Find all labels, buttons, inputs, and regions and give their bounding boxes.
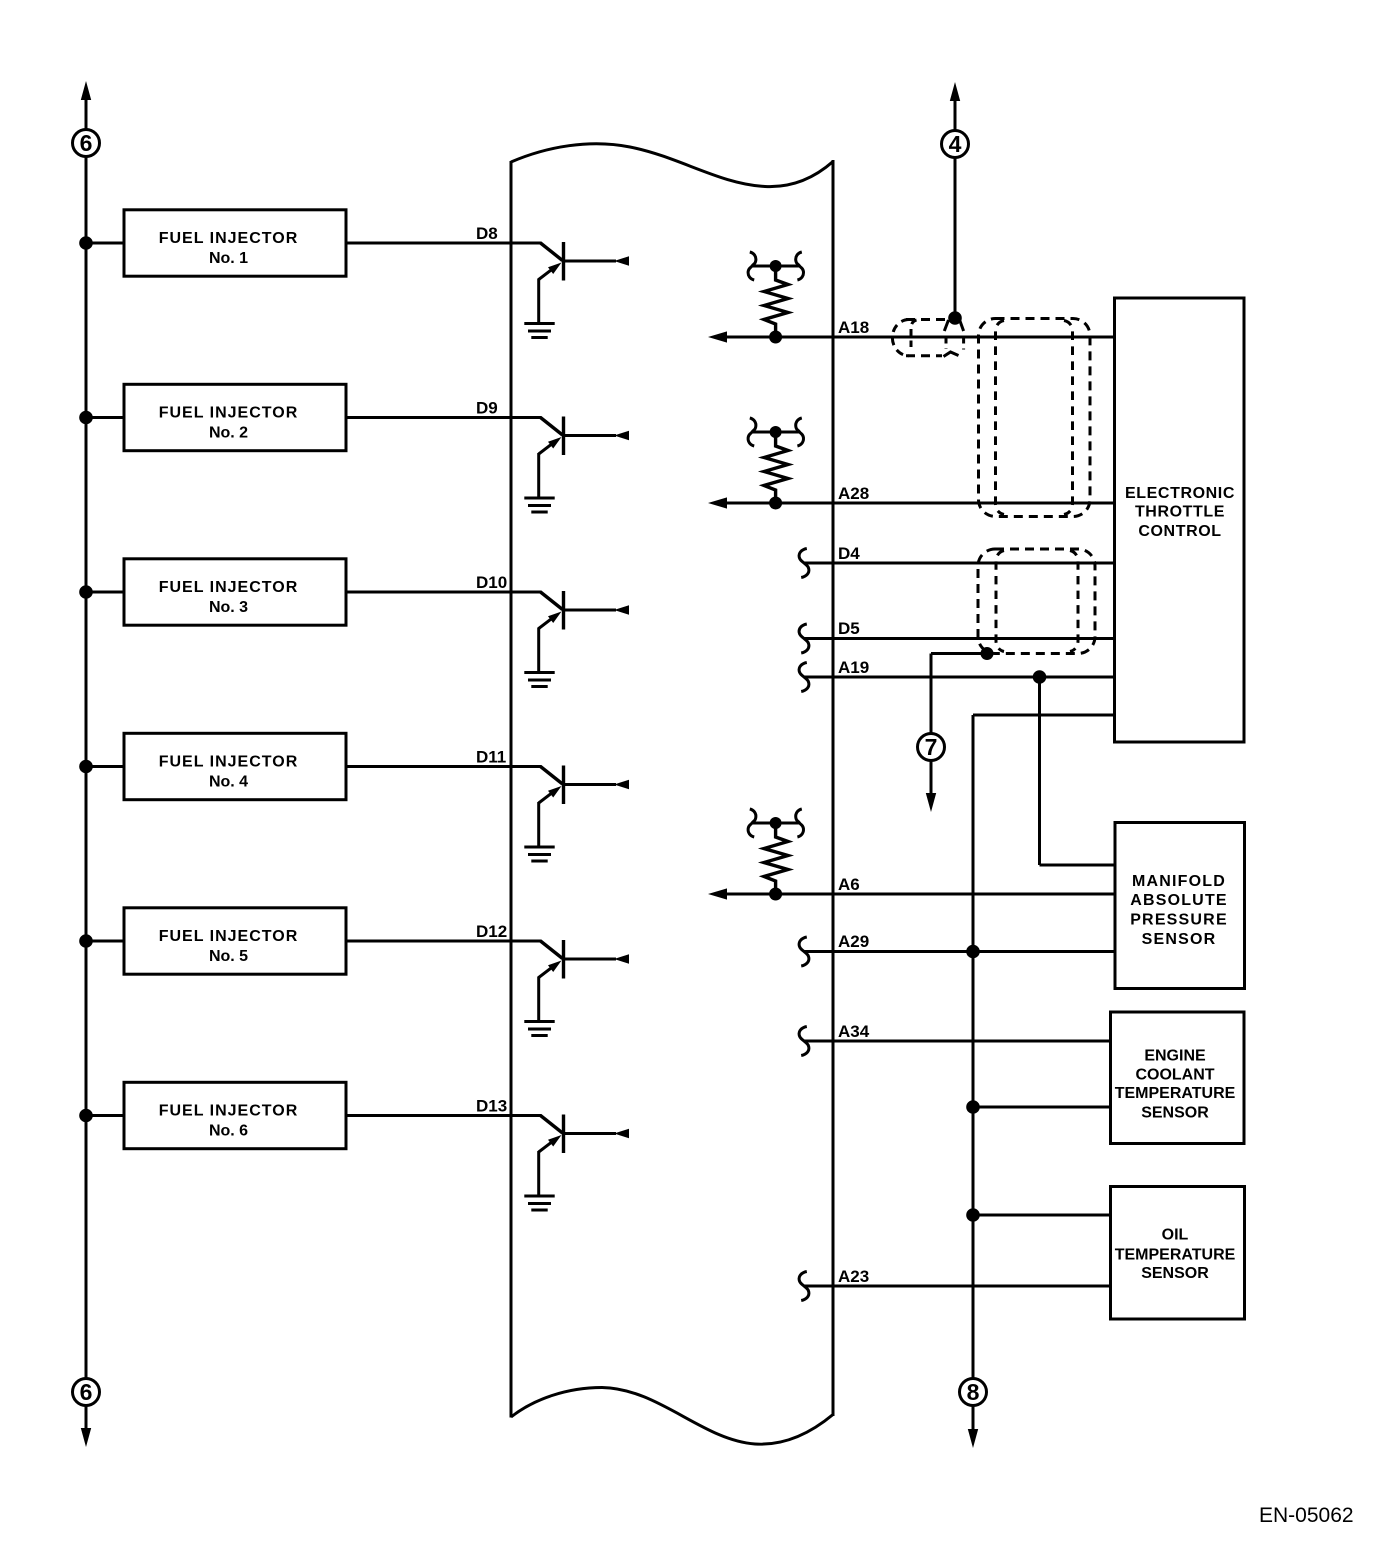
node bus junction 1 xyxy=(79,236,93,250)
wire circle 7 to arrow xyxy=(930,761,933,795)
transistor Q1 base bar xyxy=(562,242,565,281)
svg-text:D13: D13 xyxy=(476,1097,507,1116)
shield twisted pair D4/D5 xyxy=(978,549,1095,654)
wire bus to fuel injector 3 xyxy=(86,591,124,594)
wire to engine coolant temperature sensor xyxy=(973,1106,1111,1109)
svg-text:SENSOR: SENSOR xyxy=(1142,931,1217,948)
node resistor top junction xyxy=(770,260,782,272)
wire resistor top lead xyxy=(752,431,800,434)
svg-text:A23: A23 xyxy=(838,1267,869,1286)
wire break squiggle left xyxy=(748,252,756,280)
node OIL return junction xyxy=(966,1208,980,1222)
wire A19 junction down to MAP xyxy=(1038,677,1041,865)
wire left bus vertical xyxy=(85,99,88,130)
svg-text:PRESSURE: PRESSURE xyxy=(1130,912,1228,929)
svg-text:8: 8 xyxy=(967,1379,980,1405)
transistor Q3 output line xyxy=(564,609,617,612)
arrowhead pointing left Q2 xyxy=(614,431,629,441)
wire A23 xyxy=(804,1285,1111,1288)
box manifold absolute pressure sensor xyxy=(1115,823,1245,989)
box electronic throttle control xyxy=(1115,298,1245,742)
svg-text:TEMPERATURE: TEMPERATURE xyxy=(1115,1085,1236,1102)
svg-text:A19: A19 xyxy=(838,658,869,677)
wire A28 xyxy=(722,502,1114,505)
transistor Q5 base bar xyxy=(562,940,565,979)
wire bus to fuel injector 2 xyxy=(86,416,124,419)
arrowhead down left bus xyxy=(81,1428,91,1447)
wire injector 1 to D pin xyxy=(346,242,432,245)
svg-text:No. 3: No. 3 xyxy=(209,599,248,616)
fuel injector box No.3 xyxy=(124,559,346,625)
svg-text:A29: A29 xyxy=(838,932,869,951)
fuel injector box No.5 xyxy=(124,908,346,974)
node A29 junction xyxy=(966,945,980,959)
node resistor top junction xyxy=(770,426,782,438)
wire bus to fuel injector 6 xyxy=(86,1114,124,1117)
node shield drain junction A18 xyxy=(948,311,962,325)
fuel injector box No.6 xyxy=(124,1082,346,1148)
wire break squiggle D4 xyxy=(799,549,809,578)
wire bus to fuel injector 4 xyxy=(86,765,124,768)
ECU boundary left edge xyxy=(510,161,513,1418)
ECU boundary right edge xyxy=(832,160,835,1416)
transistor Q6 xyxy=(431,1115,629,1211)
wire bus to fuel injector 1 xyxy=(86,242,124,245)
svg-text:D11: D11 xyxy=(476,748,506,767)
transistor Q2 output line xyxy=(564,434,617,437)
svg-text:FUEL INJECTOR: FUEL INJECTOR xyxy=(159,230,299,247)
node 8 connector circle xyxy=(960,1379,987,1406)
arrowhead up left bus xyxy=(81,81,91,100)
wire emitter to ground Q5 xyxy=(537,977,540,1021)
svg-text:D4: D4 xyxy=(838,544,860,563)
arrowhead pointing left Q1 xyxy=(614,256,629,266)
transistor Q4 base bar xyxy=(562,766,565,805)
wire injector 6 to D pin xyxy=(346,1114,432,1117)
transistor Q3 collector lead xyxy=(431,591,542,594)
ground symbol Q6 xyxy=(524,1195,554,1198)
transistor Q5 output line xyxy=(564,958,617,961)
fuel injector box No.2 xyxy=(124,384,346,450)
node bus junction 3 xyxy=(79,585,93,599)
transistor Q3 xyxy=(431,591,629,687)
wire resistor top lead xyxy=(752,265,800,268)
transistor Q2 xyxy=(431,417,629,513)
transistor Q3 base bar xyxy=(562,591,565,630)
wire shield drain vertical xyxy=(930,654,933,734)
svg-text:D8: D8 xyxy=(476,224,498,243)
wire break squiggle D5 xyxy=(799,624,809,653)
arrowhead pointing left Q5 xyxy=(614,954,629,964)
wire bus to fuel injector 5 xyxy=(86,940,124,943)
svg-text:FUEL INJECTOR: FUEL INJECTOR xyxy=(159,405,299,422)
wire break squiggle left xyxy=(748,809,756,837)
wire injector 4 to D pin xyxy=(346,765,432,768)
svg-text:No. 5: No. 5 xyxy=(209,948,248,965)
svg-text:No. 1: No. 1 xyxy=(209,250,248,267)
wire A29 xyxy=(804,950,1116,953)
node shield drain junction D4/D5 xyxy=(981,647,994,660)
wire injector 3 to D pin xyxy=(346,591,432,594)
wire circle 4 to shield A18 xyxy=(954,158,957,317)
transistor Q1 output line xyxy=(564,260,617,263)
svg-text:CONTROL: CONTROL xyxy=(1138,523,1221,540)
wire D4 xyxy=(804,562,1114,565)
transistor Q2 emitter with arrow xyxy=(539,443,554,454)
resistor body xyxy=(764,266,788,337)
fuel injector box No.1 xyxy=(124,210,346,276)
wire circle 8 to arrow xyxy=(972,1406,975,1431)
node resistor bottom junction xyxy=(769,331,782,344)
ECU boundary torn top edge xyxy=(511,144,833,187)
resistor body xyxy=(764,432,788,503)
wire ETC ground horizontal xyxy=(973,714,1114,717)
node bus junction 5 xyxy=(79,934,93,948)
ECU boundary torn bottom edge xyxy=(511,1388,833,1445)
svg-text:ELECTRONIC: ELECTRONIC xyxy=(1125,485,1235,502)
svg-text:COOLANT: COOLANT xyxy=(1135,1066,1214,1083)
svg-text:A18: A18 xyxy=(838,318,869,337)
transistor Q4 emitter with arrow xyxy=(539,792,554,803)
svg-text:SENSOR: SENSOR xyxy=(1141,1265,1209,1282)
wire resistor top lead xyxy=(752,822,800,825)
transistor Q1 collector lead xyxy=(431,242,542,245)
svg-text:ABSOLUTE: ABSOLUTE xyxy=(1130,892,1228,909)
wire break squiggle right xyxy=(796,418,804,446)
svg-text:No. 4: No. 4 xyxy=(209,773,248,790)
ground symbol Q1 xyxy=(524,322,554,325)
wire break squiggle A19 xyxy=(799,663,809,692)
wire break squiggle A29 xyxy=(799,937,809,966)
node resistor bottom junction xyxy=(769,888,782,901)
svg-text:A28: A28 xyxy=(838,484,869,503)
transistor Q3 emitter with arrow xyxy=(539,617,554,628)
wire to oil temperature sensor xyxy=(973,1214,1111,1217)
arrowhead up connector 4 xyxy=(950,82,960,101)
transistor Q6 output line xyxy=(564,1132,617,1135)
fuel injector box No.4 xyxy=(124,733,346,799)
svg-text:FUEL INJECTOR: FUEL INJECTOR xyxy=(159,1103,299,1120)
transistor Q5 xyxy=(431,940,629,1036)
wire A6 xyxy=(722,893,1116,896)
ground symbol Q5 xyxy=(524,1020,554,1023)
node 7 connector circle xyxy=(918,734,945,761)
transistor Q6 collector lead xyxy=(431,1114,542,1117)
node bus junction 6 xyxy=(79,1109,93,1123)
svg-text:D9: D9 xyxy=(476,399,498,418)
svg-text:THROTTLE: THROTTLE xyxy=(1135,504,1225,521)
node 4 connector circle xyxy=(942,131,969,158)
wire A19 xyxy=(804,676,1114,679)
transistor Q1 xyxy=(431,242,629,338)
resistor pull-up A6 xyxy=(748,809,803,901)
wire break squiggle A34 xyxy=(799,1027,809,1056)
transistor Q6 emitter with arrow xyxy=(539,1141,554,1152)
svg-text:A6: A6 xyxy=(838,875,860,894)
node bus junction 4 xyxy=(79,760,93,774)
wire A34 xyxy=(804,1040,1111,1043)
svg-text:D12: D12 xyxy=(476,922,507,941)
arrowhead pointing left Q6 xyxy=(614,1129,629,1139)
wire emitter to ground Q6 xyxy=(537,1151,540,1195)
ground symbol Q3 xyxy=(524,671,554,674)
wire arrow to circle 4 xyxy=(954,100,957,131)
resistor pull-up A18 xyxy=(748,252,803,344)
node 6 top connector circle xyxy=(73,130,100,157)
svg-text:D5: D5 xyxy=(838,619,860,638)
wire common sensor return vertical xyxy=(972,715,975,1379)
arrowhead left A18 xyxy=(708,331,727,342)
wire break squiggle right xyxy=(796,809,804,837)
transistor Q2 collector lead xyxy=(431,416,542,419)
transistor Q4 collector lead xyxy=(431,765,542,768)
transistor Q5 emitter with arrow xyxy=(539,966,554,977)
arrowhead down connector 7 xyxy=(926,793,936,812)
wire A18 xyxy=(722,336,1114,339)
transistor Q1 emitter with arrow xyxy=(539,268,554,279)
svg-text:TEMPERATURE: TEMPERATURE xyxy=(1115,1246,1236,1263)
transistor Q4 xyxy=(431,766,629,862)
wire emitter to ground Q1 xyxy=(537,279,540,323)
svg-text:EN-05062: EN-05062 xyxy=(1259,1504,1354,1527)
resistor body xyxy=(764,823,788,894)
wire D5 xyxy=(804,637,1114,640)
arrowhead left A6 xyxy=(708,888,727,899)
box oil temperature sensor xyxy=(1111,1187,1245,1320)
wire break squiggle left xyxy=(748,418,756,446)
box engine coolant temperature sensor xyxy=(1111,1012,1245,1144)
svg-text:SENSOR: SENSOR xyxy=(1141,1105,1209,1122)
shield twisted pair A18/A28 xyxy=(979,319,1091,517)
svg-text:No. 2: No. 2 xyxy=(209,424,248,441)
wire break squiggle right xyxy=(796,252,804,280)
wire break squiggle A23 xyxy=(799,1272,809,1301)
svg-text:FUEL INJECTOR: FUEL INJECTOR xyxy=(159,579,299,596)
svg-text:A34: A34 xyxy=(838,1022,870,1041)
svg-text:6: 6 xyxy=(80,1379,93,1405)
svg-text:MANIFOLD: MANIFOLD xyxy=(1132,873,1226,890)
arrowhead pointing left Q4 xyxy=(614,780,629,790)
svg-text:ENGINE: ENGINE xyxy=(1144,1047,1206,1064)
arrowhead down connector 8 xyxy=(968,1429,978,1448)
arrowhead pointing left Q3 xyxy=(614,605,629,615)
ground symbol Q4 xyxy=(524,846,554,849)
wire emitter to ground Q2 xyxy=(537,453,540,497)
resistor pull-up A28 xyxy=(748,418,803,510)
svg-text:OIL: OIL xyxy=(1162,1226,1189,1243)
node resistor bottom junction xyxy=(769,497,782,510)
ground symbol Q2 xyxy=(524,497,554,500)
transistor Q6 base bar xyxy=(562,1115,565,1154)
node resistor top junction xyxy=(770,817,782,829)
arrowhead left A28 xyxy=(708,497,727,508)
transistor Q5 collector lead xyxy=(431,940,542,943)
svg-text:6: 6 xyxy=(80,130,93,156)
svg-text:D10: D10 xyxy=(476,573,507,592)
wire emitter to ground Q3 xyxy=(537,628,540,672)
node ECT return junction xyxy=(966,1100,980,1114)
wire injector 2 to D pin xyxy=(346,416,432,419)
svg-text:FUEL INJECTOR: FUEL INJECTOR xyxy=(159,754,299,771)
wire emitter to ground Q4 xyxy=(537,802,540,846)
node 6 bottom connector circle xyxy=(73,1379,100,1406)
svg-text:7: 7 xyxy=(925,734,938,760)
wire shield drain horizontal xyxy=(931,652,987,655)
svg-text:No. 6: No. 6 xyxy=(209,1122,248,1139)
svg-text:4: 4 xyxy=(949,131,962,157)
svg-text:FUEL INJECTOR: FUEL INJECTOR xyxy=(159,928,299,945)
node bus junction 2 xyxy=(79,411,93,425)
node A19 junction xyxy=(1033,670,1047,684)
wire injector 5 to D pin xyxy=(346,940,432,943)
shield small around A18 xyxy=(892,320,963,357)
transistor Q4 output line xyxy=(564,783,617,786)
transistor Q2 base bar xyxy=(562,417,565,456)
